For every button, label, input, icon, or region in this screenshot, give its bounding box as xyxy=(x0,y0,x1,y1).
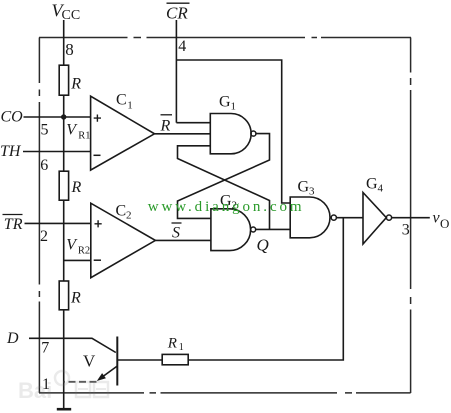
svg-text:R: R xyxy=(70,289,81,306)
nand gate G1 xyxy=(210,114,251,154)
svg-text:V: V xyxy=(83,352,96,371)
label VR1 xyxy=(66,121,90,141)
svg-text:D: D xyxy=(6,330,19,347)
label VCC xyxy=(52,1,81,24)
wire C1 output R-bar to G1 xyxy=(155,133,211,135)
svg-text:G: G xyxy=(366,176,378,193)
svg-text:1: 1 xyxy=(127,99,133,111)
wire G4 output to pin 3 vO xyxy=(392,217,430,219)
transistor V emitter with arrow xyxy=(97,366,118,381)
label VR2 xyxy=(66,236,90,256)
wire CR pin 4 lead down to G1 input xyxy=(175,20,177,123)
svg-text:CR: CR xyxy=(166,4,188,23)
svg-text:5: 5 xyxy=(41,121,49,138)
svg-text:Q: Q xyxy=(257,236,269,255)
wire G2 output cross-couple to G1 input xyxy=(178,146,270,230)
wire CR into G1 top input xyxy=(176,122,210,124)
IC boundary dash-dot border bottom xyxy=(39,392,411,394)
IC boundary dash-dot border top xyxy=(39,37,411,39)
svg-text:R: R xyxy=(70,76,81,93)
wire divider lower to ground xyxy=(63,310,65,409)
svg-text:TH: TH xyxy=(0,143,22,160)
svg-text:www.diangon.com: www.diangon.com xyxy=(148,199,305,215)
label G3 xyxy=(298,179,316,198)
label C1 xyxy=(116,91,133,111)
IC boundary dash-dot border left xyxy=(38,38,40,393)
svg-text:R2: R2 xyxy=(78,245,90,256)
resistor R (bottom divider) xyxy=(59,281,68,310)
label CR with overbar xyxy=(166,3,190,22)
label G4 xyxy=(366,176,384,195)
svg-text:G: G xyxy=(219,94,231,111)
svg-text:CO: CO xyxy=(1,109,24,126)
svg-text:O: O xyxy=(440,216,449,231)
svg-text:R: R xyxy=(160,118,171,135)
G1 output bubble xyxy=(251,131,256,136)
svg-text:1: 1 xyxy=(179,342,184,353)
svg-text:G: G xyxy=(298,179,310,196)
nand gate G2 xyxy=(211,209,251,251)
svg-text:R: R xyxy=(71,179,82,196)
svg-text:4: 4 xyxy=(178,38,186,55)
G4 output bubble xyxy=(386,215,391,220)
transistor V base bar xyxy=(116,337,118,386)
ground terminal bar pin 1 xyxy=(57,408,71,411)
svg-text:2: 2 xyxy=(126,210,132,222)
G3 output bubble xyxy=(331,215,336,220)
svg-text:6: 6 xyxy=(40,157,48,174)
op-amp comparator C2 xyxy=(91,203,156,278)
wire VR2 to C2 inverting input xyxy=(64,259,91,261)
label G2 xyxy=(220,193,237,212)
wire R1 to transistor base xyxy=(117,359,162,361)
op-amp comparator C1 xyxy=(91,96,155,170)
wire Q output of G2 to G3 input xyxy=(256,228,290,230)
resistor R1 xyxy=(162,354,188,364)
wire emitter to ground rail xyxy=(64,381,97,383)
svg-text:R: R xyxy=(167,335,177,351)
label S-bar xyxy=(172,223,182,242)
wire C2 output S-bar to G2 xyxy=(155,239,211,241)
wire VCC lead xyxy=(63,20,65,65)
label C2 xyxy=(116,203,132,222)
label vO xyxy=(433,210,450,232)
nand gate G3 xyxy=(290,197,330,238)
wire CR branch to G3 xyxy=(176,60,290,203)
wire TR pin 2 xyxy=(25,222,91,224)
resistor R (middle divider) xyxy=(59,171,68,200)
label G1 xyxy=(219,94,236,113)
svg-text:4: 4 xyxy=(378,183,384,195)
label R-bar xyxy=(160,115,173,135)
svg-text:7: 7 xyxy=(41,339,49,356)
inverter G4 xyxy=(363,193,386,245)
wire G1 output cross-couple to G2 input xyxy=(178,134,270,219)
label R1 xyxy=(167,335,184,353)
svg-text:C: C xyxy=(116,203,127,220)
wire divider middle xyxy=(63,200,65,281)
svg-text:8: 8 xyxy=(65,40,74,59)
wire D pin 7 to collector xyxy=(29,338,116,352)
G2 output bubble xyxy=(251,227,256,232)
resistor R (top divider) xyxy=(59,65,68,95)
wire feedback from G3 output node down to R1 xyxy=(188,218,343,360)
svg-text:S: S xyxy=(172,225,180,242)
svg-text:C: C xyxy=(116,91,127,108)
svg-text:3: 3 xyxy=(402,221,410,238)
svg-text:R1: R1 xyxy=(78,130,90,141)
svg-text:TR: TR xyxy=(4,216,23,233)
node VR1 junction dot xyxy=(61,114,66,119)
wire TH pin 6 xyxy=(23,151,91,153)
wire divider upper xyxy=(63,95,65,171)
svg-text:3: 3 xyxy=(309,186,315,198)
svg-text:Bai: Bai xyxy=(18,378,52,403)
watermark baidu bottom left xyxy=(18,371,108,403)
IC boundary dash-dot border right xyxy=(410,38,412,394)
svg-text:1: 1 xyxy=(231,101,237,113)
wire CO pin 5 xyxy=(24,116,91,118)
svg-text:2: 2 xyxy=(40,228,48,245)
label TR with overbar xyxy=(3,215,23,234)
wire G3 output to G4 input xyxy=(336,217,363,219)
